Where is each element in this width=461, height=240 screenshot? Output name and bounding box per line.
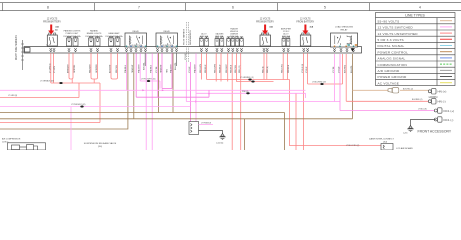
svg-text:POWER CONTROL: POWER CONTROL: [378, 50, 409, 54]
relay K1: [125, 33, 147, 47]
svg-text:BLK/RED (2): BLK/RED (2): [412, 99, 423, 101]
svg-text:FRONT ACCESSORY: FRONT ACCESSORY: [418, 129, 452, 133]
svg-text:12 VOLTS: 12 VOLTS: [260, 19, 271, 21]
svg-text:12 VOLTS UNSWITCHED: 12 VOLTS UNSWITCHED: [378, 32, 419, 36]
legend box LINE TYPES: [376, 13, 456, 86]
wire K2 pin drops: [145, 53, 147, 150]
svg-text:PNK/WHT: PNK/WHT: [171, 63, 173, 73]
svg-text:55~90 VOLTS: 55~90 VOLTS: [378, 19, 400, 23]
CB3 feed arrow (red): [302, 25, 308, 35]
load shedding relay K3: [331, 33, 358, 47]
CB1 label 12 VOLTS FROM BATTERY: [43, 19, 61, 24]
svg-text:FUS-10A FUS-10A: FUS-10A FUS-10A: [64, 35, 82, 38]
wire pink y93.3: [196, 93, 306, 98]
CB2 label 12 VOLTS FROM BATTERY: [256, 19, 274, 24]
main harness bus: [24, 47, 362, 53]
svg-text:RED/YEL: RED/YEL: [116, 65, 118, 73]
svg-text:ANALOG SIGNAL: ANALOG SIGNAL: [378, 57, 406, 61]
svg-text:AIR COMPRESSOR: AIR COMPRESSOR: [2, 137, 21, 140]
svg-text:FUS-15A FUS-15A: FUS-15A FUS-15A: [106, 35, 124, 38]
F3 labels: [106, 32, 124, 38]
svg-text:DIGITAL SIGNAL: DIGITAL SIGNAL: [378, 44, 405, 48]
wire K3 pin drops: [334, 54, 336, 102]
svg-text:LOAD SHEDDING: LOAD SHEDDING: [335, 26, 353, 29]
svg-text:6: 6: [232, 5, 234, 9]
wire brown trunk y116.5: [0, 54, 353, 150]
breaker CB2: [260, 33, 271, 46]
CB3 label 12 VOLTS FROM BATTERY: [296, 19, 314, 24]
ground G1: [219, 134, 225, 140]
legend sample power control: [440, 51, 452, 53]
svg-text:5: 5: [324, 5, 326, 9]
svg-text:DC1 (-): DC1 (-): [444, 118, 454, 122]
svg-text:BLK/YEL (2): BLK/YEL (2): [403, 88, 413, 90]
wire pink trunk y106.5: [0, 106, 191, 108]
pin id specks: [348, 44, 350, 45]
wire salmon branch x79 to y97.5: [0, 83, 79, 98]
svg-text:RED (4): RED (4): [267, 66, 269, 73]
svg-text:CHARGE: CHARGE: [230, 33, 239, 36]
horn terminal HN-: [428, 99, 436, 104]
svg-text:12 VOLTS SWITCHED: 12 VOLTS SWITCHED: [378, 26, 414, 30]
svg-text:BLK/RED: BLK/RED: [345, 64, 347, 73]
svg-text:LT BLU: LT BLU: [306, 66, 308, 73]
svg-text:FUS-15A FUS-10A: FUS-15A FUS-10A: [86, 35, 104, 38]
svg-text:RED/YEL: RED/YEL: [235, 65, 237, 73]
wire U-run 1 (salmon, accessory feed): [207, 53, 290, 79]
svg-text:BRN/WHT: BRN/WHT: [68, 63, 70, 73]
svg-text:30 85 86 87 87A: 30 85 86 87 87A: [160, 44, 174, 47]
F1 labels: [64, 30, 82, 39]
splice S1 on y83: [59, 82, 62, 84]
F8 labels: [281, 28, 292, 39]
svg-text:PNK/WHT: PNK/WHT: [139, 63, 141, 73]
fuse pair F4: [199, 39, 208, 47]
svg-text:TAN: TAN: [165, 69, 168, 73]
wire F1 pair drops: [69, 53, 73, 83]
connector CN2 (left, mid): [189, 122, 199, 135]
svg-text:FRONT HARNESS: FRONT HARNESS: [183, 28, 186, 45]
bus connector chevrons: [50, 48, 355, 52]
svg-text:LT PNK: LT PNK: [333, 66, 335, 73]
svg-text:FROM BATTERY: FROM BATTERY: [256, 21, 274, 24]
relay K2: [156, 33, 178, 47]
K3 label LOAD SHEDDING RELAY: [335, 26, 353, 32]
svg-text:(X4): (X4): [98, 146, 102, 148]
svg-text:RELAY: RELAY: [340, 28, 348, 31]
fuse pair F8 (amplifier): [282, 39, 290, 47]
svg-text:LT BLU/ORG (2): LT BLU/ORG (2): [346, 145, 360, 147]
wire U-run 2 (salmon): [236, 81, 273, 83]
DC1- terminal: [434, 117, 442, 122]
svg-text:LT PNK/BLK: LT PNK/BLK: [201, 122, 212, 124]
svg-text:RED/ORG: RED/ORG: [282, 64, 284, 73]
wire F3 pair drops: [111, 53, 118, 79]
splice S5 on U-run 3: [320, 83, 323, 85]
wire 55-90V tan drop + horn line: [353, 89, 389, 91]
wire salmon deep drops: [295, 93, 297, 150]
svg-text:RED (4): RED (4): [263, 66, 265, 73]
svg-text:4: 4: [419, 5, 421, 9]
wire magenta from separator to connector CN2: [190, 62, 192, 122]
wire CN2 pink out: [199, 124, 214, 126]
wire CB1 drops (12V unswitched, salmon): [51, 53, 54, 83]
ruler zone numbers: [47, 5, 421, 9]
svg-text:DC1 (+): DC1 (+): [444, 109, 455, 113]
svg-text:LT BLU: LT BLU: [339, 66, 341, 73]
CB2 feed arrow (red): [262, 25, 268, 35]
wire F7 drops: [236, 53, 240, 150]
svg-text:RIGHT SIDE HARNESS: RIGHT SIDE HARNESS: [15, 35, 18, 60]
wire pink y101.5: [186, 62, 340, 102]
ground G2 (front accessory): [407, 126, 413, 132]
splice S2 on y81: [147, 80, 150, 82]
legend sample 5V: [440, 38, 452, 40]
svg-text:RELAY: RELAY: [132, 30, 139, 33]
K3 pin colored specks: [334, 46, 354, 47]
legend sample A/D ground: [440, 69, 452, 71]
legend sample 55-90V: [440, 20, 452, 22]
wire F8 drops: [283, 53, 381, 145]
DC1+ terminal: [434, 108, 442, 113]
junction arrows on pink trunks: [142, 89, 144, 91]
svg-text:BLK/YEL: BLK/YEL: [144, 62, 146, 70]
wire salmon trunk y83: [51, 83, 100, 123]
K1 pin colored specks: [126, 46, 146, 47]
svg-text:LT PNK/WHT (42): LT PNK/WHT (42): [141, 78, 156, 80]
wire pink drop x71: [70, 107, 72, 151]
svg-text:DASH INTER-CONNECT: DASH INTER-CONNECT: [369, 138, 394, 141]
wire CN2 ground out: [199, 131, 223, 134]
legend sample analog: [440, 57, 452, 59]
legend sample 12V switched: [440, 26, 452, 28]
wire DC1- to ground: [411, 120, 436, 126]
legend sample AC voltage: [440, 82, 452, 84]
fuse pair F7: [235, 39, 243, 47]
svg-text:HN (+): HN (+): [438, 90, 447, 94]
svg-text:PNK/WHT: PNK/WHT: [195, 63, 197, 73]
svg-text:ACCY: ACCY: [283, 33, 289, 36]
fuse pair F3 (headlamp): [109, 38, 121, 46]
svg-text:RELAY: RELAY: [163, 30, 170, 33]
svg-text:A/D GROUND: A/D GROUND: [378, 69, 401, 73]
wire magenta jumper y88.5: [162, 88, 172, 90]
svg-text:DASH HARNESS: DASH HARNESS: [189, 29, 192, 45]
breaker CB1: [47, 33, 57, 46]
svg-text:LT BLU: LT BLU: [189, 66, 191, 73]
svg-text:LT BLU/RED (47): LT BLU/RED (47): [312, 81, 326, 83]
svg-text:12 VOLTS: 12 VOLTS: [47, 19, 58, 21]
svg-text:LT GRN/RED (3): LT GRN/RED (3): [240, 77, 254, 79]
svg-text:RED/BLU: RED/BLU: [205, 64, 207, 73]
svg-text:PNK/BLK: PNK/BLK: [125, 64, 127, 73]
wire pink trunk y90.3 (12V switched): [0, 89, 306, 91]
border ruler top: [0, 3, 461, 11]
svg-text:BLK/YEL: BLK/YEL: [175, 62, 177, 70]
svg-text:SUSPENSION RELEASE VALVE: SUSPENSION RELEASE VALVE: [84, 142, 117, 145]
svg-text:HN (-): HN (-): [438, 100, 446, 104]
K2 pin colored specks: [157, 46, 177, 47]
svg-text:LT GRN (3): LT GRN (3): [49, 63, 51, 73]
svg-text:GRN/YEL: GRN/YEL: [74, 65, 76, 73]
harness terminal strip left: [21, 40, 24, 70]
wire CB2 drops: [264, 53, 267, 79]
svg-text:RED/BLU: RED/BLU: [220, 64, 222, 73]
F2 labels: [86, 30, 104, 39]
svg-text:RED/GRN: RED/GRN: [215, 64, 217, 73]
svg-text:AC VOLTAGE: AC VOLTAGE: [378, 81, 400, 85]
svg-text:LT BLU (4): LT BLU (4): [302, 64, 304, 73]
wire magenta y97.2: [136, 90, 209, 97]
svg-text:TAN/WHT: TAN/WHT: [160, 64, 163, 73]
svg-text:LT PNK: LT PNK: [156, 66, 158, 73]
F5 labels: [215, 33, 224, 39]
svg-text:HORN: HORN: [429, 95, 438, 99]
horn inline connector: [388, 88, 399, 93]
svg-text:J-201: J-201: [403, 133, 408, 135]
legend sample 12V unswitched: [440, 32, 452, 34]
svg-text:ACCY: ACCY: [201, 33, 207, 36]
svg-text:LCD AIR BOARD: LCD AIR BOARD: [396, 147, 413, 150]
svg-text:RED/BLK: RED/BLK: [288, 64, 290, 73]
svg-text:30 85 86 87 87A: 30 85 86 87 87A: [129, 44, 143, 47]
svg-text:PNK/BLK: PNK/BLK: [151, 64, 153, 73]
wire brown trunk y113: [0, 113, 285, 151]
fuse pair F2 (hazard / brake lights): [89, 38, 101, 46]
svg-text:RED/BLK: RED/BLK: [231, 64, 233, 73]
svg-text:HEADLAMP: HEADLAMP: [108, 32, 120, 35]
splice S4 on U-run 2: [251, 81, 254, 83]
wire F5 drops: [216, 53, 221, 81]
svg-text:RED/WHT: RED/WHT: [90, 63, 92, 73]
legend sample communication: [440, 63, 452, 65]
svg-text:COMMUNICATION: COMMUNICATION: [378, 63, 407, 67]
fuse pair F6 (trailer): [227, 39, 235, 47]
svg-text:GRN/RED: GRN/RED: [96, 64, 98, 73]
wire F2 pair drops: [91, 53, 98, 83]
wire pink jumper y81: [140, 81, 160, 89]
wire F4 drops: [201, 53, 206, 79]
svg-text:RED/GRN: RED/GRN: [200, 64, 202, 73]
svg-text:BRAKE LIGHTS: BRAKE LIGHTS: [87, 32, 102, 35]
wire salmon y118.5: [0, 122, 100, 124]
horn terminal HN+: [428, 89, 436, 94]
svg-text:LT PNK/WHT (42): LT PNK/WHT (42): [71, 104, 86, 106]
svg-text:PLATE LIGHT: PLATE LIGHT: [66, 32, 79, 35]
wire labels (vertical) under bus: [49, 53, 353, 73]
F4 labels: [200, 33, 209, 39]
svg-text:LT GRN: LT GRN: [54, 66, 56, 73]
F6 labels: [230, 28, 239, 39]
fuse pair F5: [215, 39, 224, 47]
CB1 feed arrow (red): [48, 25, 54, 35]
harness boundary dashed separator: [186, 22, 188, 62]
wire K1 pin drops: [126, 53, 128, 90]
fuse pair F1 (parking lights / plate light): [67, 38, 79, 46]
svg-text:J-104 (5): J-104 (5): [216, 142, 224, 144]
svg-text:GAUGES: GAUGES: [215, 33, 224, 36]
svg-text:FROM BATTERY: FROM BATTERY: [296, 21, 314, 24]
svg-text:BLU/WHT: BLU/WHT: [110, 64, 112, 73]
svg-text:LT GRN/BLK (37): LT GRN/BLK (37): [40, 80, 54, 82]
wire F6 drops: [228, 53, 233, 150]
svg-text:POWER GROUND: POWER GROUND: [378, 75, 407, 79]
svg-text:8: 8: [47, 5, 49, 9]
svg-text:BLK/YEL: BLK/YEL: [351, 65, 353, 73]
svg-text:RED (12): RED (12): [239, 65, 241, 73]
svg-text:RED/WHT: RED/WHT: [226, 63, 228, 73]
fuse top pin squares: [67, 36, 289, 38]
breaker CB3: [300, 33, 311, 46]
wire CB3 drops + U-run 3: [303, 53, 342, 84]
svg-text:LT GRN (3): LT GRN (3): [8, 95, 18, 97]
svg-text:FROM BATTERY: FROM BATTERY: [43, 21, 61, 24]
splice S7 on y93.3: [246, 92, 249, 94]
splice S6 on y106.5: [80, 106, 83, 108]
svg-text:TAN/WHT: TAN/WHT: [131, 64, 134, 73]
legend sample power ground: [440, 76, 452, 78]
svg-text:LINE TYPES: LINE TYPES: [405, 14, 425, 18]
svg-text:5 OR 3.3 VOLTS: 5 OR 3.3 VOLTS: [378, 38, 404, 42]
legend sample digital: [440, 45, 452, 47]
svg-text:LT BLU: LT BLU: [185, 53, 187, 60]
bus terminal (filled) at load shedding feed: [351, 48, 355, 51]
svg-text:LT BLU (8): LT BLU (8): [418, 108, 427, 110]
svg-text:7: 7: [138, 5, 140, 9]
svg-text:12 VOLTS: 12 VOLTS: [300, 19, 311, 21]
splice S3 on U-run 1: [248, 79, 251, 81]
svg-text:PNK (8): PNK (8): [242, 91, 249, 93]
